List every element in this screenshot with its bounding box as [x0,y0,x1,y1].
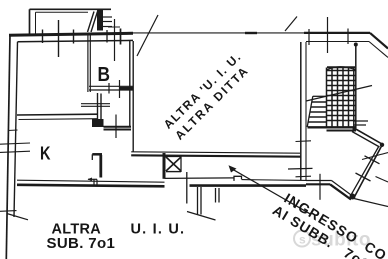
left window tick lower [0,151,30,152]
section slash right [285,17,297,32]
bay SE window tick 2 [356,173,371,181]
bay SE wall inner [351,146,379,195]
svg-text:U. I. U.: U. I. U. [131,222,186,238]
lobby wall left line [97,93,99,120]
room B right wall outer [129,41,131,127]
left wall inner [14,42,18,217]
fixture lower pair 1 [93,180,95,187]
corridor wall bump [234,176,242,181]
french door dark jamb [97,10,103,31]
bay edge line right upper [362,153,388,160]
corridor tick x186 [186,172,188,204]
stairs top arc [327,67,356,70]
bay vertex blob [350,194,356,200]
kitchen top wall outer [17,113,98,116]
party wall thin line [133,32,304,34]
wall tick x73 [73,30,75,44]
window tick vertical [120,29,122,45]
room B right wall inner [132,41,134,152]
corridor bottom wall left thin [17,180,165,182]
bay edge line right lower [376,177,388,183]
corridor bottom wall left thick [17,185,165,187]
bay SW diagonal thick [330,184,351,199]
threshold bar upper [104,126,132,128]
right vertical wall inner [305,42,307,181]
watermark circle [294,231,310,247]
svg-text:K: K [40,143,51,164]
bay SW thick line [306,183,330,185]
wall tick x42 [42,30,44,44]
french door tick 1 [97,16,112,18]
door X right edge [180,156,182,172]
balcony left wall inner [35,12,37,34]
left wall tick y130 [8,129,18,132]
top-right diagonal wall outer [370,33,388,49]
lobby door tick lower [81,105,110,107]
room B tick x109 [108,83,110,94]
door X diagonal 2 [166,157,181,171]
leader arrowhead [229,165,237,172]
bay corner blob stair [353,127,357,131]
wall tick x107 [106,30,108,43]
door jamb pair A2 [200,187,202,215]
fixture hook top bar [92,153,102,156]
room B bottom wall upper line [89,85,133,87]
corridor bottom wall right thick [190,184,307,187]
right vertical wall [300,42,302,181]
wall tick x309 [308,29,310,45]
main top wall outer [9,33,133,35]
room B left wall inner [89,34,91,93]
door jamb pair A1 [197,187,199,215]
window tick short horizontal [108,26,120,28]
room B bottom wall lower line [89,89,133,91]
wall long tick x58 [58,20,60,57]
stairs right flight rails [327,68,354,128]
right wall door tick y169 [288,167,313,170]
french door tick 3 [97,26,112,28]
bay SE wall outer [354,144,383,198]
stairs up diagonal line [306,86,372,102]
svg-text:SUB. 7o1: SUB. 7o1 [47,235,116,252]
lobby door tick upper [81,103,110,105]
stairs right flight treads [327,71,356,121]
stairs top bar [327,66,355,68]
wall junction blob [92,119,104,127]
svg-text:B: B [98,64,111,86]
room B door threshold dark bar [119,87,133,91]
right top wall outer [304,32,370,34]
left wall outer [6,34,10,259]
bay SW diagonal thin [332,181,353,197]
door jamb pair B2 [218,188,220,203]
bay SW top line [306,180,332,182]
right top wall inner [306,41,369,43]
wall tick x348 [347,29,349,45]
stairs bottom edge thick [308,126,357,128]
balcony door hatch diagonal 1 [88,12,95,33]
room B tick x119 [119,80,121,98]
bay thin continuation [354,199,388,207]
stair shaft right wall [355,44,357,129]
top-right diagonal wall inner [369,42,388,58]
stairs left flight top edge [313,95,327,97]
window tick long vertical [114,19,116,61]
stairs left flight slant edge [307,96,313,127]
bay tick x320 [319,174,321,200]
fixture lower pair 2 [96,180,98,187]
left bottom window tick [0,210,17,213]
door jamb pair B1 [215,188,217,203]
stair wall dot [354,43,358,47]
section slash left [137,15,158,56]
door jamb thick bar [163,153,166,179]
party wall dark patch [245,32,257,34]
stairs left flight treads [308,102,327,122]
bay NE wall inner [352,132,380,148]
door step bar [165,177,235,180]
main top wall inner [18,40,134,41]
left window tick upper [0,143,30,144]
balcony left wall outer [29,9,31,34]
threshold tick x116 [115,115,117,139]
big room bottom wall thin [131,152,300,153]
door X top edge [164,155,181,157]
bay corner blob NE [380,143,384,147]
room B left wall outer [87,34,89,93]
fixture arrowhead [88,178,93,182]
balcony inner top line [36,11,89,13]
corridor bottom wall right thin [242,179,307,182]
lobby wall right line [100,94,102,126]
french door tick 2 [97,21,112,23]
big room bottom wall thick [131,155,301,156]
stairs extended treads [354,121,368,125]
fixture tick with arrow [88,178,97,180]
leader line [234,170,311,214]
threshold bar lower [104,129,132,131]
door X diagonal 1 [166,157,181,171]
window tick x327 [327,17,329,53]
balcony top wall [30,8,112,10]
kitchen top wall inner [19,118,98,121]
fixture hook vertical bar [99,155,102,178]
right wall tick y176 [296,175,312,178]
door X bottom edge [166,171,181,173]
stairs bottom second edge [327,130,357,132]
right wall tick y141 [296,140,312,143]
bay SE window tick 1 [365,156,380,164]
balcony door hatch diagonal 2 [91,12,98,33]
bay NE wall outer [354,128,383,144]
fixture hook left stub [91,154,93,160]
door leaf diagonal [187,212,216,221]
left bottom window sill diagonal [7,214,28,220]
